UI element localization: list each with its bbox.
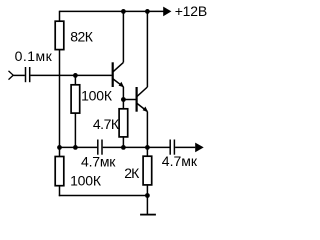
- wire 4.7K bottom to bus: [122, 137, 124, 148]
- svg-text:2К: 2К: [124, 165, 140, 181]
- transistor Q2: [137, 87, 149, 112]
- node dot Q1 emitter / Q2 base: [121, 97, 126, 102]
- wire bottom rail: [59, 195, 148, 197]
- resistor 4.7K: [119, 109, 128, 137]
- wire Q2 emitter down to bus: [146, 112, 148, 148]
- wire Q1 collector to top rail: [122, 11, 124, 62]
- wire 82K top stub: [59, 11, 61, 22]
- wire bus middle segment: [103, 146, 148, 148]
- wire 82K bottom to bus (crosses base wire, no connection): [59, 50, 61, 148]
- output arrow: [195, 143, 204, 153]
- wire capacitor to Q1 base: [30, 74, 111, 76]
- node dot bus 4.7K: [121, 145, 126, 150]
- svg-text:100К: 100К: [81, 88, 113, 104]
- wire input to capacitor: [13, 74, 25, 76]
- resistor 2K: [143, 156, 152, 185]
- node dot bus left 82K/100K: [57, 145, 62, 150]
- capacitor 4.7мк bypass: [98, 140, 102, 155]
- capacitor 4.7мк output: [170, 140, 174, 155]
- wire 4.7K top stub from Q1 emitter node: [122, 100, 124, 109]
- node dot Q1 base: [73, 73, 78, 78]
- wire bus to output capacitor: [147, 146, 169, 148]
- node dot top rail Q1 collector: [121, 9, 126, 14]
- svg-text:4.7мк: 4.7мк: [162, 153, 198, 169]
- svg-text:0.1мк: 0.1мк: [15, 48, 53, 64]
- wire 2K top stub: [146, 147, 148, 156]
- svg-text:4.7К: 4.7К: [93, 116, 120, 132]
- svg-text:82К: 82К: [70, 29, 94, 45]
- wire Q2 collector to top rail: [146, 11, 148, 87]
- resistor 100K second: [55, 157, 64, 186]
- wire Q1 emitter node to Q2 base: [123, 99, 135, 101]
- wire 100K#1 top stub: [74, 75, 76, 84]
- node dot bus 100K#1: [73, 145, 78, 150]
- power arrow +12V: [163, 7, 171, 17]
- wire 100K#2 bottom to rail: [59, 186, 61, 197]
- wire 100K#1 bottom to bus: [74, 113, 76, 147]
- wire bus left segment: [60, 146, 98, 148]
- wire Q1 emitter down to node: [122, 87, 124, 100]
- svg-text:4.7мк: 4.7мк: [81, 153, 116, 169]
- resistor 82K: [55, 21, 64, 49]
- ground: [140, 196, 156, 215]
- svg-text:+12В: +12В: [175, 3, 207, 19]
- svg-text:100К: 100К: [70, 172, 102, 188]
- wire 100K#2 top stub: [59, 147, 61, 156]
- resistor 100K first: [71, 85, 80, 113]
- wire top rail +12V: [60, 10, 164, 12]
- capacitor 0.1мк: [26, 67, 30, 82]
- node dot bus Q2 emitter / 2K / output: [145, 145, 150, 150]
- node dot top rail Q2 collector: [145, 9, 150, 14]
- wire output to arrow: [175, 146, 195, 148]
- wire 2K bottom to rail: [146, 185, 148, 196]
- transistor Q1: [113, 62, 124, 87]
- input terminal chevron: [9, 71, 14, 80]
- node dot bottom rail ground: [145, 193, 150, 198]
